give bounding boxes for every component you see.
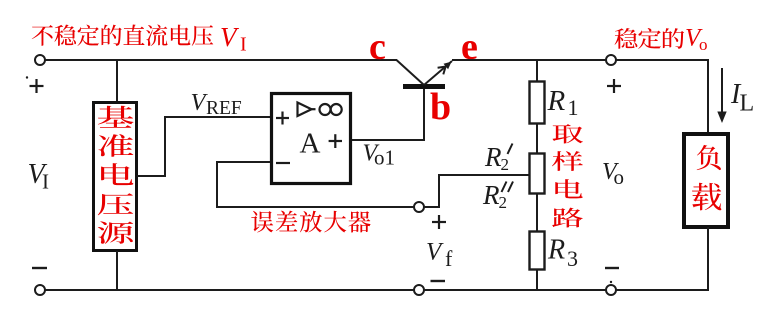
label - (feedback minus) (431, 280, 446, 282)
block: load (负载) (684, 134, 728, 227)
transistor Q emitter stroke with arrow (424, 61, 452, 85)
svg-text:o: o (699, 35, 708, 54)
wire R2 to R3 (536, 193, 538, 231)
svg-text:R: R (547, 85, 566, 117)
label V_o1 (363, 141, 396, 170)
terminal feedback - (bottom) (414, 285, 424, 295)
label: sampling circuit (取样电路, red) (552, 124, 583, 227)
transistor Q collector stroke (397, 60, 425, 85)
label - (output negative) (605, 268, 619, 283)
wire reference-source top drop (116, 60, 118, 101)
wire sampling chain top drop (536, 60, 538, 81)
wire load bottom to rail (707, 227, 709, 290)
label R_2'' (482, 180, 513, 212)
svg-text:o1: o1 (374, 146, 395, 170)
label V_f (426, 239, 453, 272)
label R_3 (547, 235, 578, 272)
wire top rail right of emitter (452, 59, 606, 61)
label + (feedback) (432, 215, 446, 229)
label + (input positive) (26, 76, 44, 93)
transistor Q base bar (403, 84, 445, 89)
svg-text:I: I (240, 34, 247, 56)
svg-text:c: c (369, 26, 386, 68)
wire bottom rail right (616, 289, 709, 291)
wire bottom rail (45, 289, 414, 291)
label R_1 (547, 85, 579, 120)
terminal feedback + (Vf) (414, 202, 424, 212)
block: reference voltage source (基准电压源) (94, 103, 137, 251)
terminal input + (top-left) (35, 55, 45, 65)
svg-text:o: o (614, 165, 625, 189)
terminal input - (bottom-left) (35, 285, 45, 295)
resistor R3 (530, 232, 545, 270)
wire top rail to load corner (616, 59, 709, 61)
svg-text:b: b (430, 86, 451, 128)
svg-text:R: R (484, 142, 502, 172)
resistor R1 (530, 82, 545, 124)
label: stable output voltage Vo (red) (615, 25, 708, 55)
label: unstable DC input voltage (red) (32, 22, 247, 56)
svg-text:R: R (547, 235, 565, 266)
label V_REF (191, 89, 242, 119)
label R_2' (484, 142, 513, 174)
svg-text:1: 1 (568, 95, 579, 120)
label: error amplifier (误差放大器, red) (251, 211, 370, 233)
svg-text:2: 2 (499, 193, 508, 212)
wire R3 to bottom rail (536, 269, 538, 290)
wire R1 to R2 (536, 124, 538, 153)
label + (output positive) (607, 79, 621, 93)
label V_I (28, 159, 50, 194)
svg-text:A: A (300, 128, 321, 160)
wire opamp output to transistor base (Vo1 net) (352, 88, 424, 140)
label V_o (output) (602, 159, 624, 189)
label I_L (730, 79, 754, 117)
current arrow I_L (717, 68, 726, 123)
resistor R2 (530, 154, 545, 194)
wire top rail left (45, 59, 397, 61)
svg-text:e: e (461, 26, 478, 68)
wire bottom rail middle (424, 289, 606, 291)
wire reference output to opamp noninverting input (VREF net) (137, 117, 270, 176)
svg-text:f: f (445, 246, 453, 271)
svg-text:REF: REF (206, 98, 242, 119)
wire load top drop (707, 59, 709, 134)
svg-text:3: 3 (567, 246, 578, 271)
op-amp U A (error amplifier) (272, 94, 351, 184)
terminal output + (top) (606, 55, 616, 65)
wire reference-source bottom drop (116, 251, 118, 290)
svg-text:R: R (482, 180, 500, 210)
svg-text:I: I (42, 170, 49, 194)
wire R2 tap to feedback terminal (424, 175, 529, 207)
wire opamp inverting input feedback (217, 162, 414, 207)
svg-text:2: 2 (501, 155, 510, 174)
label - (input negative) (32, 267, 47, 269)
terminal output - (bottom) (606, 285, 616, 295)
svg-text:L: L (740, 91, 755, 117)
